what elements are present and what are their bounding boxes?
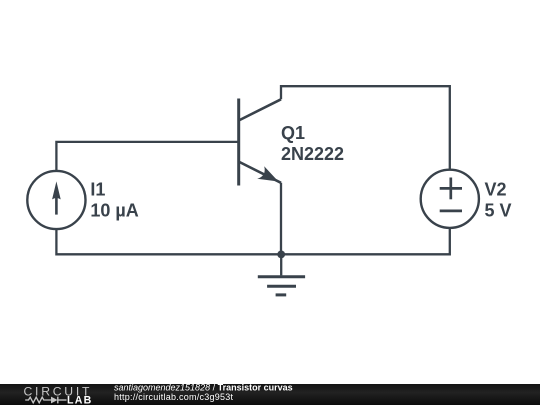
logo resistor-diode glyph (25, 397, 66, 404)
svg-text:5 V: 5 V (485, 200, 512, 220)
svg-text:http://circuitlab.com/c3g953t: http://circuitlab.com/c3g953t (114, 392, 234, 402)
wire: junction to V2 bottom (281, 228, 450, 254)
transistor Q1 (239, 99, 281, 186)
svg-text:Q1: Q1 (281, 123, 305, 143)
junction node (277, 251, 285, 259)
footer bar (0, 384, 540, 405)
svg-text:I1: I1 (90, 180, 105, 200)
svg-text:V2: V2 (485, 179, 507, 199)
wire: I1 bottom to junction (56, 229, 281, 254)
ground (258, 254, 305, 295)
svg-text:2N2222: 2N2222 (281, 144, 344, 164)
svg-text:10 µA: 10 µA (90, 201, 138, 221)
current source I1 (27, 171, 85, 229)
wire base: I1 top to Q1 base (56, 142, 238, 171)
wire: Q1 emitter to junction (280, 183, 282, 255)
wire: Q1 collector to V2 top (281, 86, 450, 169)
svg-text:LAB: LAB (67, 395, 93, 405)
voltage source V2 (421, 170, 479, 228)
